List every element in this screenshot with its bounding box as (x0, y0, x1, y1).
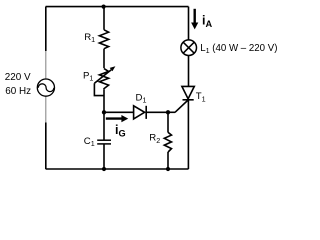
thyristor T1 (182, 86, 194, 99)
node gate junction A (102, 110, 106, 114)
AC source V1 220 V 60 Hz (37, 79, 54, 96)
label 220 V / 60 Hz (5, 72, 31, 97)
potentiometer P1 (94, 66, 115, 95)
wire left rail upper black part (45, 7, 47, 51)
svg-text:iA: iA (202, 14, 212, 29)
capacitor C1 (97, 140, 111, 144)
current arrow iA (191, 9, 212, 30)
wire mid branch top (top rail to R1) (103, 7, 105, 30)
diode D1 (134, 106, 147, 119)
svg-text:60 Hz: 60 Hz (5, 86, 31, 97)
resistor R2 (164, 132, 171, 152)
node B diode/R2/gate junction (166, 110, 170, 114)
svg-text:P1: P1 (83, 70, 93, 82)
wire thyristor to bottom rail (187, 100, 189, 169)
wire left rail gray segment above source (45, 51, 47, 79)
wire P1 to gate node (103, 89, 105, 112)
wire lamp to thyristor (188, 55, 190, 86)
wire right rail top (to lamp) (188, 7, 190, 40)
resistor R1 (99, 30, 108, 49)
wire R2 to bottom rail (167, 152, 169, 169)
svg-text:R2: R2 (149, 133, 160, 145)
wire gate lead diagonal to thyristor (175, 100, 188, 112)
current arrow iG (106, 115, 128, 138)
svg-text:220 V: 220 V (5, 72, 31, 83)
wire left rail lower black part (45, 123, 47, 170)
wire gate lead horizontal (168, 111, 175, 113)
node top junction (102, 5, 106, 9)
svg-text:C1: C1 (84, 136, 95, 148)
svg-text:D1: D1 (136, 92, 147, 104)
wire bottom rail (46, 168, 189, 170)
wire diode to node B (146, 111, 168, 113)
svg-text:R1: R1 (84, 32, 95, 44)
svg-text:L1 (40 W – 220 V): L1 (40 W – 220 V) (200, 43, 277, 55)
wire gate node to C1 (103, 112, 105, 140)
node bottom R2 junction (166, 167, 170, 171)
lamp L1 (181, 40, 197, 56)
wire R1 to P1 (103, 49, 105, 68)
wire top rail (46, 6, 189, 8)
wire left rail gray segment below source (45, 96, 47, 123)
node bottom C1 junction (102, 167, 106, 171)
svg-text:iG: iG (115, 123, 126, 138)
wire C1 to bottom rail (103, 144, 105, 169)
svg-text:T1: T1 (196, 91, 206, 103)
wire gate node to diode D1 (104, 111, 134, 113)
wire node B to R2 (167, 112, 169, 132)
